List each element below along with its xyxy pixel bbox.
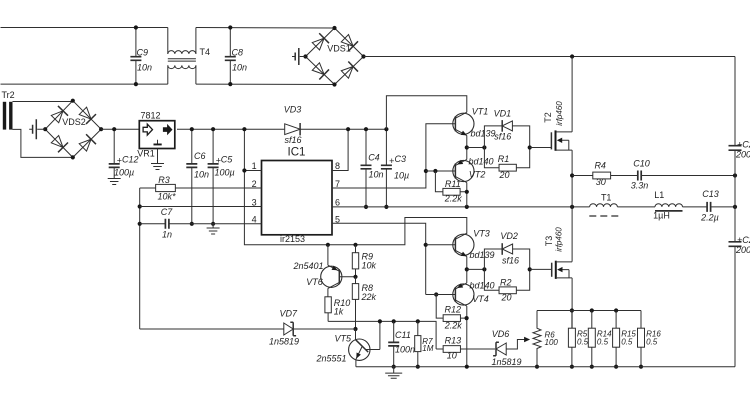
- wire VCC net pin1: [244, 129, 466, 245]
- resistor R1: [484, 148, 529, 181]
- junction VDS1 plus: [361, 54, 365, 58]
- capacitor C4: [361, 129, 384, 207]
- wire T3 source: [571, 278, 573, 328]
- svg-text:sf16: sf16: [502, 256, 519, 266]
- junction gate network right: [528, 145, 532, 149]
- op-amp U1 IC1 ir2153 driver: [252, 147, 340, 245]
- capacitor C9: [130, 28, 152, 85]
- svg-text:0.5: 0.5: [646, 337, 658, 346]
- svg-text:1n5819: 1n5819: [491, 357, 521, 367]
- svg-text:C9: C9: [137, 47, 149, 57]
- transformer T1: [589, 193, 619, 216]
- junction VT4 base R12: [434, 292, 438, 296]
- svg-text:6: 6: [335, 197, 340, 207]
- capacitor C7: [140, 207, 262, 240]
- transformer T4 common-mode choke: [168, 28, 210, 85]
- resistor R2: [484, 269, 529, 302]
- resistor R4: [572, 161, 638, 188]
- svg-text:1k: 1k: [334, 306, 344, 316]
- junction R7 top: [416, 319, 420, 323]
- svg-text:T4: T4: [200, 47, 211, 57]
- svg-text:R2: R2: [500, 277, 512, 287]
- junction VDS2 AC bottom: [71, 155, 75, 159]
- svg-text:100µ: 100µ: [215, 167, 235, 177]
- resistor R11: [435, 171, 466, 203]
- svg-text:2.2µ: 2.2µ: [700, 212, 719, 222]
- junction C5 top: [211, 127, 215, 131]
- svg-text:bd140: bd140: [468, 157, 493, 167]
- transistor VT5: [315, 329, 379, 367]
- junction C4 bottom: [364, 205, 368, 209]
- capacitor C11: [388, 321, 415, 366]
- transformer Tr2: [2, 90, 15, 129]
- resistor R5: [568, 311, 588, 367]
- wire VT4 base: [426, 294, 456, 296]
- resistor R3: [140, 175, 262, 202]
- junction gate network 2 right: [528, 267, 532, 271]
- svg-text:T1: T1: [601, 193, 612, 203]
- svg-text:100n: 100n: [395, 345, 415, 355]
- svg-text:10k*: 10k*: [157, 192, 176, 202]
- wire Tr2 bottom to VDS2: [13, 129, 73, 157]
- svg-text:1M: 1M: [422, 344, 433, 353]
- svg-text:0.5: 0.5: [577, 337, 589, 346]
- svg-text:C3: C3: [395, 154, 407, 164]
- svg-text:10n: 10n: [232, 62, 247, 72]
- wire T2 gate: [530, 147, 552, 149]
- svg-text:VR1: VR1: [137, 149, 155, 159]
- svg-text:2: 2: [252, 179, 257, 189]
- svg-text:2n5401: 2n5401: [292, 261, 323, 271]
- junction half-bridge midpoint VS rail: [570, 205, 574, 209]
- diode VD3: [284, 105, 302, 146]
- capacitor C10: [631, 158, 735, 190]
- wire mains top-right: [196, 27, 335, 30]
- junction R16 bottom: [639, 365, 643, 369]
- svg-text:200µ: 200µ: [735, 245, 750, 255]
- junction VT5 collector: [378, 319, 382, 323]
- diode VD1: [484, 109, 529, 148]
- svg-text:bd140: bd140: [469, 281, 494, 291]
- junction VT3 VT4 emitters: [465, 267, 469, 271]
- wire VDS2 to VR1 input: [101, 128, 140, 130]
- svg-text:C12: C12: [122, 154, 139, 164]
- svg-text:100µ: 100µ: [114, 167, 134, 177]
- wire emitters to gate network 2: [467, 268, 485, 270]
- svg-text:C5: C5: [221, 154, 233, 164]
- transistor VT3: [453, 228, 495, 260]
- wire VT4 emitter: [466, 269, 468, 283]
- junction VDS2 plus: [99, 127, 103, 131]
- wire VT2 emitter: [466, 148, 468, 160]
- svg-text:bd139: bd139: [470, 129, 495, 139]
- junction R9 R8 VT6 base: [353, 275, 357, 279]
- junction R5 bottom: [570, 365, 574, 369]
- svg-text:R4: R4: [594, 161, 606, 171]
- junction T3 source sense rail: [570, 308, 574, 312]
- junction VT4 collector ground: [465, 365, 469, 369]
- svg-text:10n: 10n: [194, 170, 209, 180]
- svg-text:22k: 22k: [361, 292, 377, 302]
- svg-text:VT6: VT6: [306, 277, 323, 287]
- capacitor C2 upper: [729, 140, 750, 160]
- svg-text:10n: 10n: [369, 169, 384, 179]
- wire pin 6 VS output rail: [332, 206, 735, 208]
- svg-text:VDS1: VDS1: [327, 43, 351, 53]
- svg-text:VT4: VT4: [472, 294, 489, 304]
- svg-text:7812: 7812: [140, 110, 160, 120]
- junction VT2 base: [424, 169, 428, 173]
- wire VT3 emitter: [466, 256, 468, 269]
- junction C3 top: [384, 127, 388, 131]
- transistor T3 irfp460: [544, 227, 572, 279]
- svg-text:4: 4: [252, 214, 257, 224]
- ground: [108, 179, 121, 185]
- junction R6 bottom: [535, 365, 539, 369]
- svg-text:VD2: VD2: [500, 231, 518, 241]
- svg-text:VD1: VD1: [494, 109, 512, 119]
- wire VT4 collector: [466, 306, 468, 367]
- svg-text:0.5: 0.5: [597, 337, 609, 346]
- junction R15 bottom: [614, 365, 618, 369]
- wire pin 7 HO to driver bases: [332, 124, 455, 188]
- wire bottom rail: [356, 366, 735, 368]
- wire pin 3 stub: [140, 206, 262, 208]
- capacitor C5: [208, 129, 235, 224]
- junction pin1: [242, 168, 246, 172]
- svg-text:3: 3: [252, 197, 257, 207]
- svg-text:T2: T2: [543, 112, 553, 123]
- junction R11 top: [433, 169, 437, 173]
- svg-text:2.2k: 2.2k: [444, 193, 463, 203]
- wire T2 source to midpoint: [571, 150, 573, 262]
- svg-text:irfp460: irfp460: [554, 227, 563, 252]
- resistor R7: [415, 321, 434, 366]
- junction pin4: [138, 222, 142, 226]
- wire bootstrap to VT1 collector: [386, 96, 466, 129]
- junction VT2 collector VS rail: [465, 205, 469, 209]
- wire VR1 output rail: [177, 128, 284, 130]
- capacitor C3: [381, 129, 409, 207]
- wire T3 gate: [530, 268, 552, 270]
- svg-text:L1: L1: [654, 190, 664, 200]
- svg-text:VD3: VD3: [284, 105, 302, 115]
- resistor R16: [638, 311, 662, 367]
- wire feedback to VD7 anode: [140, 328, 284, 330]
- wire pin 5 LO to driver bases: [332, 223, 426, 294]
- wire VT5 collector rail: [328, 321, 436, 349]
- svg-text:1n5819: 1n5819: [269, 337, 299, 347]
- junction C5 bottom ground node: [211, 222, 215, 226]
- svg-text:20: 20: [500, 292, 511, 302]
- junction VDS1 AC top: [332, 26, 336, 30]
- svg-text:C10: C10: [633, 158, 650, 168]
- wire left feedback vertical: [139, 188, 141, 329]
- junction VCC at 12V rail: [242, 127, 246, 131]
- svg-text:T3: T3: [544, 236, 554, 247]
- wire emitters to gate network: [467, 147, 485, 149]
- wire mains bottom-left: [1, 83, 168, 85]
- junction C6 bottom: [190, 222, 194, 226]
- svg-text:+C2: +C2: [737, 140, 750, 150]
- resistor R8: [352, 277, 376, 329]
- svg-text:R1: R1: [498, 154, 510, 164]
- junction C10 right rail: [733, 173, 737, 177]
- junction VT3 base: [424, 243, 428, 247]
- junction VDS2 AC top: [71, 99, 75, 103]
- capacitor C2 lower: [729, 235, 750, 255]
- diode VD6: [491, 329, 521, 367]
- junction R15 top: [614, 308, 618, 312]
- wire VT1 emitter: [466, 135, 468, 147]
- svg-text:ir2153: ir2153: [280, 234, 305, 244]
- svg-text:1µH: 1µH: [653, 211, 670, 221]
- junction gate network left: [482, 145, 486, 149]
- svg-text:2n5551: 2n5551: [315, 353, 346, 363]
- capacitor C6: [186, 129, 209, 224]
- svg-text:sf16: sf16: [494, 132, 511, 142]
- junction VT1 VT2 emitters: [465, 145, 469, 149]
- junction VT6 emitter VCC: [326, 243, 330, 247]
- svg-text:C7: C7: [161, 207, 173, 217]
- transistor VT4: [453, 281, 495, 306]
- junction T2 drain to +rail: [570, 54, 574, 58]
- wire VT6 emitter: [327, 245, 329, 265]
- svg-text:VT1: VT1: [472, 107, 489, 117]
- svg-text:0.5: 0.5: [621, 337, 633, 346]
- potentiometer R6: [533, 311, 558, 367]
- svg-text:Tr2: Tr2: [2, 90, 15, 100]
- svg-text:C4: C4: [368, 152, 380, 162]
- junction C6 top: [190, 127, 194, 131]
- ground: [393, 367, 395, 373]
- svg-text:VT2: VT2: [469, 169, 486, 179]
- junction C13 right rail: [733, 205, 737, 209]
- wire VD7 to VT5 base: [293, 328, 355, 330]
- resistor R10: [325, 297, 350, 322]
- negative terminal marker VDS1: [292, 48, 306, 65]
- junction C12 top: [112, 127, 116, 131]
- junction C8 top: [228, 25, 232, 29]
- svg-text:10k: 10k: [362, 261, 377, 271]
- svg-text:10: 10: [447, 351, 457, 361]
- wire +rail top: [364, 56, 736, 58]
- junction C11 top: [392, 319, 396, 323]
- svg-text:sf16: sf16: [284, 135, 301, 145]
- svg-text:VD7: VD7: [279, 308, 298, 318]
- junction VD7 R8 VT5 base: [353, 327, 357, 331]
- wire VD6 to R6 wiper: [506, 340, 526, 350]
- junction pin3: [138, 204, 142, 208]
- wire T2 drain: [571, 57, 573, 132]
- svg-text:30: 30: [596, 177, 606, 187]
- negative terminal marker VDS2: [29, 119, 45, 139]
- junction C9 bottom: [134, 82, 138, 86]
- resistor R9: [352, 245, 376, 277]
- junction R9 top VCC: [353, 243, 357, 247]
- wire mains bottom-right: [196, 83, 335, 85]
- wire mains top-left: [1, 27, 168, 29]
- capacitor C13: [700, 189, 719, 222]
- svg-text:200µ: 200µ: [735, 150, 750, 160]
- svg-text:100: 100: [545, 338, 559, 347]
- svg-text:C13: C13: [702, 189, 719, 199]
- resistor R12: [436, 295, 466, 331]
- svg-text:3.3n: 3.3n: [631, 181, 649, 191]
- svg-text:R11: R11: [445, 179, 461, 189]
- svg-text:+C2: +C2: [737, 235, 750, 245]
- junction R14 bottom: [590, 365, 594, 369]
- capacitor C8: [225, 28, 247, 85]
- svg-text:R12: R12: [445, 304, 462, 314]
- svg-text:irfp460: irfp460: [555, 101, 564, 126]
- svg-text:10µ: 10µ: [394, 171, 409, 181]
- junction VDS2 minus: [43, 127, 47, 131]
- wire VT6 collector: [327, 288, 329, 296]
- junction C9 top: [134, 25, 138, 29]
- svg-text:R3: R3: [158, 175, 170, 185]
- wire VT3 base: [426, 244, 456, 246]
- wire right rail: [734, 57, 736, 367]
- junction VDS1 AC bottom: [332, 82, 336, 86]
- wire VT6 base: [339, 276, 355, 278]
- svg-text:IC1: IC1: [288, 147, 306, 159]
- wire VT2 base: [426, 170, 455, 172]
- transistor VT6: [292, 261, 341, 288]
- voltage regulator VR1 7812: [137, 110, 175, 169]
- svg-text:C11: C11: [395, 330, 411, 340]
- svg-text:7: 7: [335, 179, 340, 189]
- svg-text:bd139: bd139: [469, 250, 494, 260]
- wire sense rail top: [537, 310, 641, 312]
- junction ground node: [392, 365, 396, 369]
- resistor R15: [613, 311, 637, 367]
- svg-text:VT3: VT3: [473, 228, 490, 238]
- svg-text:8: 8: [335, 161, 340, 171]
- svg-text:R13: R13: [445, 335, 462, 345]
- wire VT2 collector: [466, 183, 468, 207]
- wire pin 8 bootstrap: [332, 129, 348, 170]
- capacitor C12: [109, 129, 139, 178]
- diode VD2: [484, 231, 529, 269]
- transistor T2 irfp460: [543, 101, 572, 151]
- wire pin 1 stub: [244, 170, 261, 172]
- svg-text:20: 20: [498, 170, 509, 180]
- svg-text:VDS2: VDS2: [62, 117, 86, 127]
- junction R14 top: [590, 308, 594, 312]
- svg-text:VD6: VD6: [492, 329, 510, 339]
- junction gate network 2 left: [482, 267, 486, 271]
- diode VD7: [269, 308, 299, 346]
- inductor L1: [653, 190, 682, 221]
- junction R12 VT4 collector: [465, 316, 469, 320]
- diode bridge VDS1: [306, 28, 364, 85]
- junction R11 VT2 collector: [465, 190, 469, 194]
- junction VDS1 minus: [303, 54, 307, 58]
- wire Tr2 top to VDS2: [13, 100, 73, 103]
- svg-text:2.2k: 2.2k: [444, 320, 463, 330]
- wire VD3 cathode rail: [300, 128, 386, 130]
- junction C3 bottom: [384, 205, 388, 209]
- resistor R13: [436, 335, 495, 360]
- svg-text:10n: 10n: [137, 62, 152, 72]
- transistor VT1: [453, 107, 496, 139]
- resistor R14: [588, 311, 612, 367]
- svg-text:C6: C6: [194, 151, 206, 161]
- junction R4 snubber: [570, 173, 574, 177]
- svg-text:1: 1: [252, 161, 257, 171]
- junction C4 top: [364, 127, 368, 131]
- ground: [212, 224, 214, 228]
- svg-text:VT5: VT5: [335, 333, 353, 343]
- junction C8 bottom: [228, 82, 232, 86]
- transistor VT2: [453, 157, 494, 183]
- svg-text:1n: 1n: [162, 230, 172, 240]
- junction R7 bottom: [416, 365, 420, 369]
- wire VT5 collector: [379, 321, 381, 349]
- svg-text:C8: C8: [232, 47, 244, 57]
- junction VD3 to pin8: [346, 127, 350, 131]
- diode bridge VDS2: [45, 101, 101, 158]
